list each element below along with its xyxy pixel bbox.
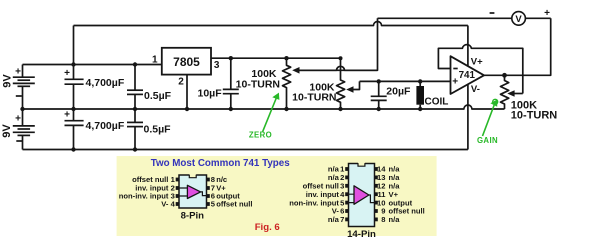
14-pin right pin numbers	[377, 165, 386, 224]
label GAIN (green) with arrow and wiper ring	[477, 99, 498, 145]
node junction dot pin3/10uF	[229, 56, 233, 60]
IC package 8-pin DIP body	[179, 174, 207, 208]
8-pin right labels	[216, 175, 252, 209]
8-pin right pin numbers	[211, 175, 216, 209]
node junction dot input/L1	[418, 79, 422, 83]
8-pin stubs right	[207, 178, 210, 206]
wire V- supply from op-amp to -9V rail	[467, 85, 469, 150]
svg-text:20µF: 20µF	[386, 85, 411, 97]
inductor L1 sensor COIL	[416, 81, 424, 109]
svg-text:8: 8	[381, 215, 385, 224]
wire feedback: inverting input to GAIN wiper (hop over V+ wire)	[438, 45, 522, 94]
node junction dot output / GAIN pot	[502, 73, 507, 78]
wire op-amp output to voltmeter plus	[484, 18, 551, 75]
node junction dot +9V rail / C2	[133, 62, 137, 66]
svg-text:10-TURN: 10-TURN	[292, 91, 336, 103]
wire 7805 pin 2 to mid rail	[186, 75, 188, 109]
svg-text:COIL: COIL	[425, 97, 449, 108]
svg-text:9V: 9V	[1, 124, 13, 138]
svg-text:3: 3	[214, 60, 220, 71]
wire 0V middle rail (hop over V- wire at x=467.9)	[23, 105, 505, 109]
14-pin left labels	[289, 165, 339, 224]
svg-text:0.5µF: 0.5µF	[144, 124, 172, 136]
8-pin left labels	[119, 175, 169, 209]
8-pin stubs left	[176, 178, 179, 206]
svg-text:10-TURN: 10-TURN	[511, 110, 558, 122]
node dot pin3/pot R2 corner	[339, 56, 343, 60]
op-amp U2 741 triangle	[451, 56, 485, 94]
node junction dots mid rail	[71, 107, 75, 111]
svg-text:10µF: 10µF	[198, 88, 223, 100]
wire voltmeter line y=18.3	[378, 17, 551, 19]
op-amp triangle inside 14-pin	[349, 186, 375, 205]
voltmeter minus sign	[490, 12, 495, 14]
svg-text:n/a: n/a	[389, 215, 401, 224]
svg-text:+: +	[452, 76, 458, 87]
svg-text:V-: V-	[471, 84, 480, 95]
battery B1 9V (upper)	[2, 65, 35, 110]
14-pin stubs right	[375, 167, 378, 221]
svg-text:GAIN: GAIN	[477, 136, 498, 145]
potentiometer R2 100K 10-TURN (second ZERO pot)	[337, 58, 360, 109]
svg-text:741: 741	[459, 70, 476, 81]
wire V+ supply from top rail into op-amp	[467, 26, 469, 66]
label ZERO (green) with arrow	[249, 93, 280, 140]
voltmeter M1	[512, 12, 526, 26]
svg-text:1: 1	[152, 55, 158, 66]
capacitor C1 4,700uF (upper)	[64, 65, 84, 110]
capacitor C2 0.5uF (upper)	[127, 65, 143, 110]
potentiometer R1 100K 10-TURN (ZERO pot)	[283, 58, 378, 109]
14-pin right labels	[389, 165, 425, 224]
wire -9V bottom rail	[23, 149, 468, 151]
node junction dot +9V rail / C1	[71, 62, 75, 66]
svg-text:V: V	[515, 14, 522, 25]
potentiometer R3 100K 10-TURN (GAIN pot)	[501, 75, 523, 109]
battery B2 9V (lower)	[1, 109, 35, 150]
regulator U1 7805 box	[162, 48, 211, 75]
14-pin stubs left	[345, 167, 348, 221]
node junction dot input/C6	[377, 79, 381, 83]
IC package 14-pin DIP body	[349, 162, 375, 226]
svg-text:2: 2	[178, 77, 184, 88]
svg-text:7: 7	[340, 215, 344, 224]
wire op-amp + input line	[360, 80, 451, 82]
svg-text:9V: 9V	[2, 74, 14, 88]
svg-text:V+: V+	[471, 57, 483, 68]
wire top rail +9V (hop over voltmeter drop at x=377.5)	[74, 22, 468, 26]
capacitor C3 4,700uF (lower)	[64, 109, 84, 150]
svg-text:V-: V-	[161, 200, 169, 209]
svg-text:8-Pin: 8-Pin	[181, 211, 205, 222]
op-amp triangle inside 8-pin	[179, 185, 207, 198]
svg-text:4,700µF: 4,700µF	[86, 77, 125, 89]
svg-text:10-TURN: 10-TURN	[236, 78, 280, 90]
svg-text:4,700µF: 4,700µF	[86, 120, 125, 132]
info panel background	[117, 156, 437, 236]
wire 7805 pin 3 output rail to pots	[211, 57, 341, 59]
8-pin left pin numbers	[171, 175, 176, 209]
svg-text:offset null: offset null	[216, 200, 252, 209]
node junction dot mid rail / battery junction	[20, 107, 24, 111]
capacitor C6 20uF	[371, 81, 387, 109]
svg-text:Fig. 6: Fig. 6	[255, 222, 280, 233]
14-pin left pin numbers	[340, 165, 345, 224]
svg-text:n/a: n/a	[328, 215, 340, 224]
svg-text:+: +	[15, 67, 21, 78]
svg-text:+: +	[64, 68, 70, 79]
node junction dots -9V rail	[71, 147, 75, 151]
svg-text:0.5µF: 0.5µF	[144, 90, 172, 102]
capacitor C5 10uF	[223, 58, 239, 109]
svg-text:14-Pin: 14-Pin	[347, 229, 376, 240]
svg-text:+: +	[15, 114, 21, 125]
svg-text:+: +	[544, 8, 550, 19]
wire +9V rail from battery B1 to 7805 pin 1	[23, 64, 162, 66]
svg-text:+: +	[64, 109, 70, 120]
capacitor C4 0.5uF (lower)	[127, 109, 143, 150]
node junction dot pin3/pot R1	[284, 56, 288, 60]
svg-text:ZERO: ZERO	[249, 131, 272, 140]
wire R1 wiper to voltmeter minus (vertical x=377.5, hop over R2 lead)	[296, 18, 378, 70]
wire vertical from top rail to +9V rail at x=73.5	[73, 26, 75, 65]
svg-text:7805: 7805	[173, 55, 200, 69]
svg-text:Two Most Common 741 Types: Two Most Common 741 Types	[151, 158, 291, 169]
